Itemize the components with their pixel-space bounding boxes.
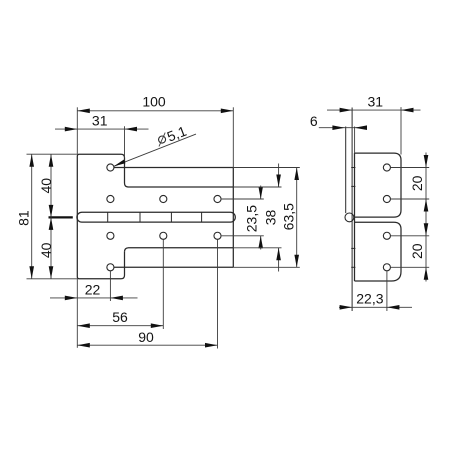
hinge axis center tick — [49, 216, 73, 218]
extension line above plate right face — [354, 127, 356, 154]
dimension 100 — [77, 110, 233, 112]
svg-text:40: 40 — [38, 242, 54, 258]
dimension 20 upper — [391, 167, 429, 169]
svg-text:20: 20 — [409, 175, 425, 191]
side upper tab — [355, 153, 402, 217]
knuckle tick 3 — [351, 247, 355, 249]
hole row2 c1 — [107, 195, 114, 202]
dimension 23,5 — [222, 198, 264, 200]
left plate outline (81 mm leaf with tabs) — [77, 154, 124, 279]
right leaf bottom edge — [114, 266, 233, 268]
side hole 1 — [383, 164, 390, 171]
side hole 3 — [383, 232, 390, 239]
knuckle tick 1 — [351, 167, 355, 169]
svg-text:22,3: 22,3 — [356, 291, 383, 307]
dimension 63,5 — [233, 167, 299, 169]
svg-text:38: 38 — [263, 210, 279, 226]
svg-text:6: 6 — [310, 113, 318, 129]
hole row2 c2 — [160, 195, 167, 202]
hole row3 c1 — [107, 232, 114, 239]
svg-text:20: 20 — [409, 243, 425, 259]
bottom hole — [107, 264, 114, 271]
right leaf right edge — [232, 168, 234, 268]
right leaf top edge — [114, 167, 233, 169]
side hole 2 — [383, 195, 390, 202]
svg-text:23,5: 23,5 — [243, 205, 259, 232]
svg-text:63,5: 63,5 — [281, 203, 297, 230]
knuckle division 3 — [170, 212, 172, 222]
knuckle tick 2 — [351, 185, 355, 187]
knuckle division 1 — [107, 212, 109, 222]
extension lines left column — [76, 107, 78, 154]
hole row2 c3 — [214, 195, 221, 202]
svg-text:31: 31 — [368, 93, 384, 109]
side view barrel left edge — [345, 127, 347, 214]
dimension 56 — [77, 325, 163, 327]
dimension 22 — [50, 297, 138, 299]
side view plate left face — [351, 108, 353, 312]
dimension 22,3 — [386, 271, 388, 311]
leader diameter 5,1 — [114, 134, 196, 166]
svg-text:90: 90 — [138, 329, 154, 345]
dimension 20 lower — [424, 223, 429, 236]
side lower tab — [355, 222, 402, 281]
svg-text:40: 40 — [38, 178, 54, 194]
right leaf upper contour (38 section top) — [125, 183, 234, 187]
hole row3 c3 — [214, 232, 221, 239]
right leaf lower contour (38 section bottom) — [125, 248, 234, 252]
svg-text:22: 22 — [85, 281, 101, 297]
svg-text:81: 81 — [16, 210, 32, 226]
svg-text:5,1: 5,1 — [165, 123, 189, 145]
dimension 38 — [233, 186, 281, 188]
svg-text:100: 100 — [142, 94, 166, 110]
top 5.1 hole — [107, 164, 114, 171]
side hole 4 — [383, 264, 390, 271]
knuckle division 2 — [139, 212, 141, 222]
dimension 40 upper — [50, 154, 52, 279]
knuckle division 4 — [201, 212, 203, 222]
side view plate right face — [354, 153, 356, 281]
hole row3 c2 — [160, 232, 167, 239]
knuckle tick 4 — [351, 266, 355, 268]
dimension 31 (main) — [55, 128, 149, 130]
dimension 90 — [77, 344, 217, 346]
svg-text:56: 56 — [112, 309, 128, 325]
dimension 6 — [319, 127, 367, 129]
hinge pin circle — [345, 213, 354, 222]
dimension 31 (side) — [400, 107, 402, 154]
dimension 81 — [31, 154, 33, 279]
hinge knuckle band — [77, 212, 235, 222]
svg-text:31: 31 — [92, 113, 108, 129]
